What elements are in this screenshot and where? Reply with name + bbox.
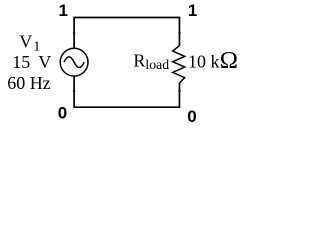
svg-text:0: 0 [187,107,196,126]
svg-text:Ω: Ω [220,47,238,74]
wire bottom rail node 0: left riser, bottom wire, right riser [74,77,179,108]
svg-text:V: V [38,52,51,72]
svg-text:0: 0 [58,103,67,122]
svg-text:60 Hz: 60 Hz [7,73,51,93]
svg-text:1: 1 [59,1,68,20]
wire junction dot left lower [73,89,76,92]
wire junction dot right upper [178,31,181,34]
wire top rail node 1: left riser, top wire, right riser [74,18,179,48]
AC source sine symbol [64,57,84,68]
AC voltage source V1 circle [60,48,88,76]
svg-text:Rload: Rload [133,51,169,72]
wire junction dot right lower [178,89,181,92]
svg-text:10 k: 10 k [188,52,220,72]
svg-text:1: 1 [188,1,197,20]
wire junction dot left upper [73,32,76,35]
resistor Rload zigzag [173,46,185,83]
svg-text:15: 15 [12,52,30,72]
